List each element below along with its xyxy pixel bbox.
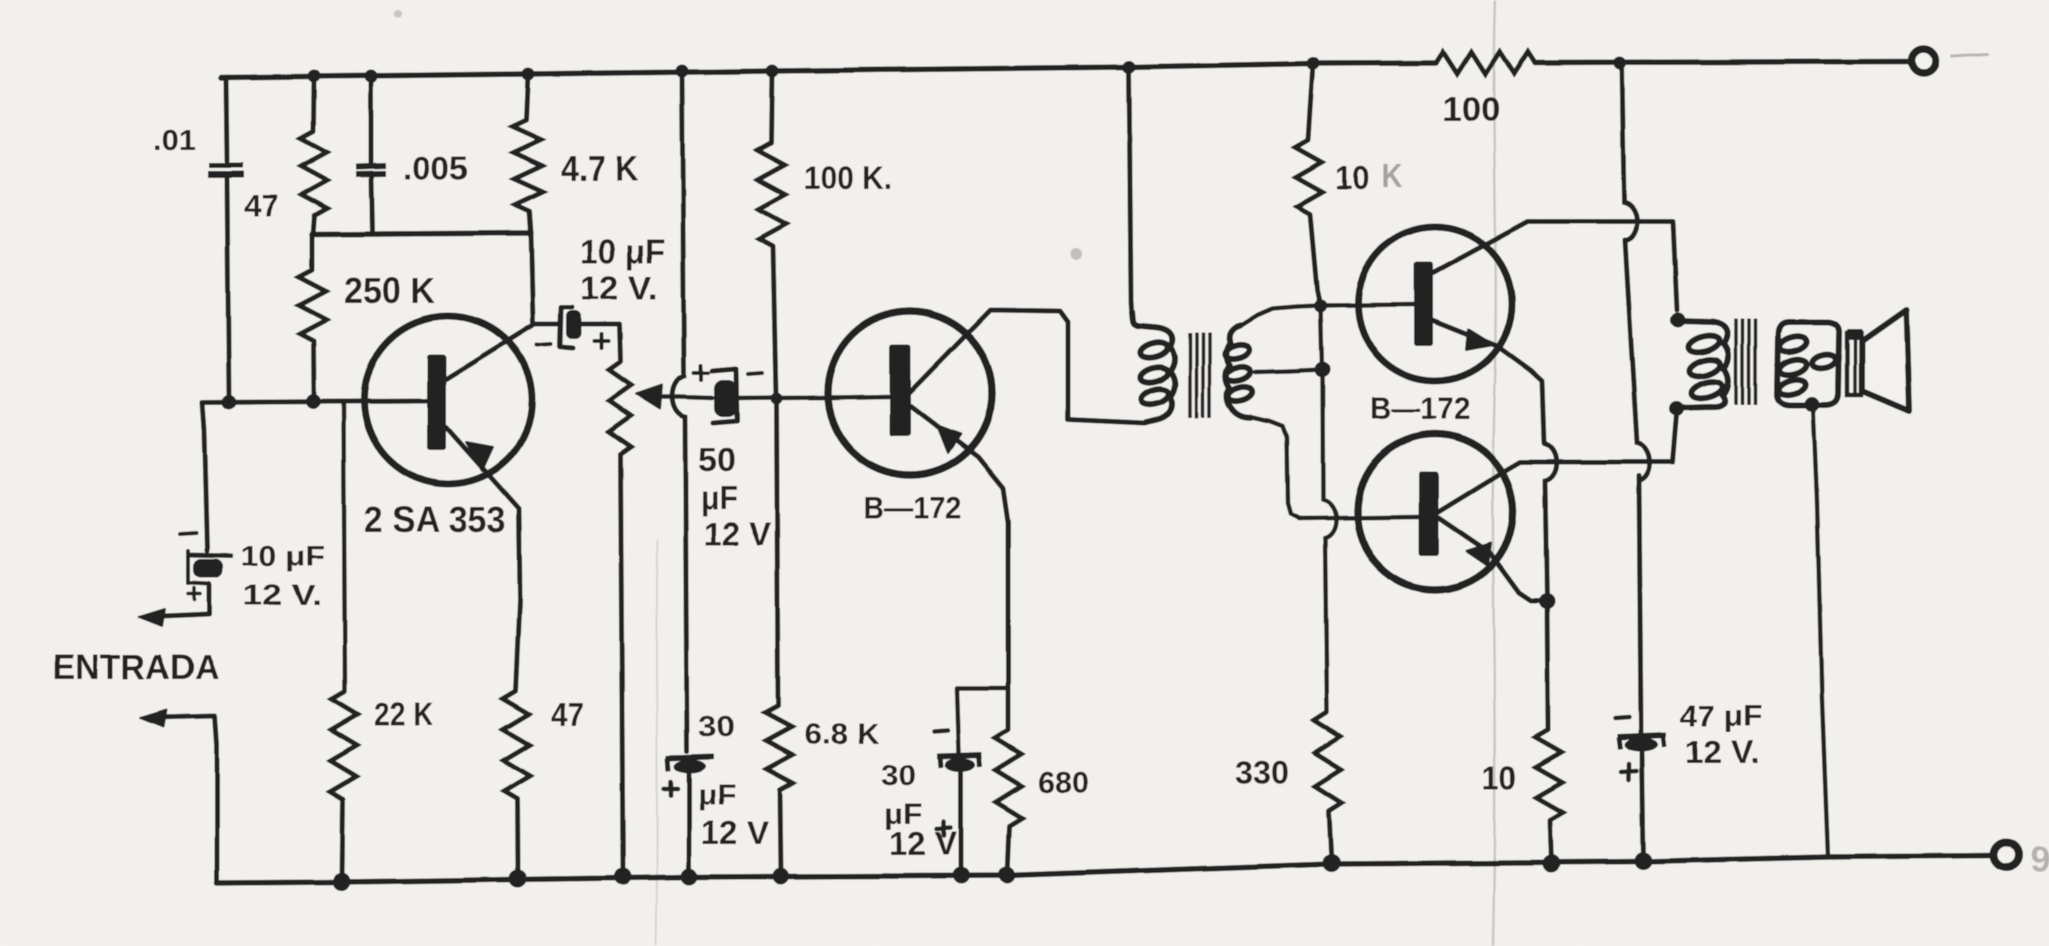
transistor Q2 bar — [890, 344, 911, 436]
node 680/rail — [998, 867, 1015, 884]
node T2 primary bottom — [1670, 402, 1685, 417]
transistor Q1 collector wire — [446, 325, 533, 379]
node bias junction — [771, 393, 783, 405]
resistor R 100 (series in rail) — [1436, 52, 1535, 74]
svg-text:30: 30 — [698, 711, 735, 743]
node 6.8K/rail — [773, 868, 790, 885]
transistor Q2 emitter wire — [911, 406, 1008, 730]
node base Q1 / .01 join — [222, 395, 237, 410]
wire mid tap to 330 (with hop) — [1323, 370, 1337, 713]
svg-text:μF: μF — [698, 780, 736, 812]
wire c30R to rail — [959, 771, 964, 876]
resistor R 10 — [1535, 730, 1563, 820]
node T2 secondary tap — [1805, 397, 1820, 412]
resistor R 22K — [330, 691, 358, 799]
node 330/rail — [1323, 854, 1341, 872]
label minus c10uF — [537, 344, 551, 345]
capacitor C 10uF coupling — [560, 307, 573, 348]
svg-text:K: K — [1381, 157, 1402, 194]
resistor R 250K — [299, 270, 327, 341]
paper crease — [1493, 0, 1496, 946]
terminal top right — [1912, 49, 1936, 73]
label plus c50uF — [694, 371, 708, 375]
svg-text:12 V.: 12 V. — [243, 580, 322, 612]
wire rail to C.005 — [369, 77, 374, 165]
svg-text:2 SA 353: 2 SA 353 — [364, 499, 506, 540]
wire rail to R10K — [1308, 64, 1313, 141]
wire T1 secondary bottom to Q4 base — [1252, 417, 1300, 519]
faint dash right of terminal — [1952, 54, 1988, 56]
svg-text:10: 10 — [1335, 159, 1369, 196]
svg-text:250 K: 250 K — [344, 270, 435, 311]
svg-text:6.8 K: 6.8 K — [804, 719, 879, 751]
wire 680 to rail — [1007, 826, 1009, 875]
node emitters join — [1539, 594, 1555, 610]
terminal bottom right — [1994, 843, 2019, 868]
node 47b/rail — [509, 870, 527, 888]
capacitor .01 — [209, 163, 243, 168]
label minus c47 — [1615, 717, 1629, 718]
node rail/100K — [766, 65, 779, 78]
svg-text:4.7 K: 4.7 K — [561, 148, 638, 189]
svg-text:330: 330 — [1235, 755, 1289, 791]
node rail/10K — [1307, 57, 1320, 70]
svg-text:B—172: B—172 — [863, 490, 961, 526]
wire collector node to cap — [533, 322, 560, 327]
wire cap to upper входной arrow — [152, 584, 209, 617]
transistor Q4 collector wire — [1438, 415, 1677, 512]
transistor Q3 circle — [1358, 227, 1512, 381]
wire input lower to ground rail — [153, 716, 217, 883]
svg-text:12 V.: 12 V. — [580, 269, 658, 306]
wire rail to R47 — [311, 76, 317, 131]
transistor Q1 bar — [427, 354, 446, 450]
wire 100K to base node — [773, 246, 776, 398]
node rail/filter column — [676, 65, 689, 78]
wire emitter to 30uF right — [957, 688, 1008, 753]
label plus input cap — [188, 592, 200, 596]
wire c30L to rail — [687, 773, 692, 877]
wire speaker return — [1813, 404, 1828, 857]
capacitor C 30uF (right) — [937, 755, 982, 757]
label plus c10uF — [594, 339, 608, 343]
node 22K/rail — [333, 873, 351, 891]
wire R47b to rail — [515, 799, 521, 879]
transformer T1 secondary winding — [1225, 325, 1252, 417]
transistor Q4 base wire — [1299, 517, 1419, 519]
transistor Q1 emitter wire — [446, 427, 520, 691]
paper crease 2 — [656, 540, 657, 946]
capacitor C 50uF — [712, 369, 737, 423]
wire R22K to rail — [342, 799, 343, 881]
transformer T1 core — [1188, 333, 1192, 418]
transistor Q1 circle — [364, 316, 532, 484]
transistor Q2 base wire — [834, 397, 890, 398]
wire cap to pot top — [581, 324, 620, 362]
wire B+ hop over Q3 collector line — [1622, 63, 1637, 241]
wire 330 to rail — [1329, 811, 1332, 863]
svg-text:12 V: 12 V — [889, 825, 957, 862]
svg-text:30: 30 — [881, 760, 916, 792]
wire rail to R4.7K — [526, 74, 528, 120]
wire Q3 emitter hop over collector line — [1543, 443, 1557, 601]
node c30R/rail — [953, 867, 970, 884]
transistor Q3 collector wire — [1433, 222, 1677, 311]
svg-text:10 μF: 10 μF — [241, 541, 325, 573]
svg-text:47 μF: 47 μF — [1680, 700, 1763, 733]
wire 50uF to bias node — [737, 395, 776, 400]
wire .01 to base node — [227, 178, 229, 402]
capacitor C .005 — [356, 166, 386, 167]
resistor R 100K — [758, 143, 787, 246]
transistor Q2 circle — [828, 311, 992, 475]
wire bottom ground rail — [217, 856, 1992, 884]
transistor Q3 emitter wire — [1432, 320, 1544, 443]
speaker cone — [1862, 310, 1909, 411]
wire B+ to 47uF — [1639, 476, 1641, 734]
node rail/T1 — [1123, 61, 1136, 74]
transistor Q4 bar — [1419, 471, 1439, 556]
label minus c50uF — [748, 373, 762, 374]
node rail/.005 — [365, 70, 378, 83]
wire filter column — [672, 71, 687, 751]
node T2 primary top — [1671, 313, 1686, 328]
transformer T2 core — [1734, 319, 1738, 405]
svg-text:50: 50 — [698, 441, 736, 478]
transistor Q4 emitter wire — [1439, 518, 1547, 601]
capacitor C input 10uF — [187, 555, 233, 556]
node base Q1 / 250K join — [306, 394, 321, 409]
svg-text:10: 10 — [1482, 759, 1516, 796]
svg-text:μF: μF — [701, 479, 738, 516]
svg-text:12 V: 12 V — [704, 516, 772, 552]
node c30L/rail — [681, 868, 698, 885]
transformer T2 secondary winding — [1777, 322, 1839, 405]
wire feedback bus — [312, 233, 531, 235]
transistor Q2 collector wire — [910, 310, 1145, 424]
svg-text:22 K: 22 K — [374, 696, 433, 733]
wire rail to terminal — [1535, 62, 1911, 63]
wire Q3 base — [1321, 305, 1415, 306]
label minus c30R — [934, 730, 948, 731]
resistor R 4.7K — [512, 120, 543, 211]
svg-text:47: 47 — [551, 696, 584, 733]
wire C.005 to bus — [372, 177, 373, 234]
svg-text:9 V: 9 V — [2030, 839, 2049, 880]
svg-text:12 V: 12 V — [701, 814, 769, 851]
wire R10 to rail — [1550, 820, 1552, 864]
transformer T2 primary winding — [1677, 321, 1729, 408]
transistor Q3 emitter arrow — [1466, 329, 1494, 350]
label minus input cap — [180, 533, 196, 534]
potentiometer wiper arrow — [636, 385, 662, 409]
resistor R 10K — [1295, 140, 1322, 214]
potentiometer track — [609, 362, 632, 455]
label plus c30R — [937, 828, 951, 829]
wire 250K to base node — [311, 341, 317, 401]
svg-text:.005: .005 — [403, 150, 468, 186]
transistor Q4 circle — [1357, 434, 1513, 590]
node pot/rail — [615, 868, 632, 885]
resistor R 6.8K — [765, 706, 793, 790]
svg-text:47: 47 — [244, 188, 278, 223]
label plus c47 — [1621, 771, 1637, 772]
capacitor C 30uF (left) — [666, 757, 714, 759]
node rail/47 — [308, 70, 321, 83]
transistor Q1 emitter arrow — [466, 442, 493, 471]
capacitor C 47uF — [1617, 735, 1666, 737]
resistor R 680 — [995, 730, 1022, 826]
wire T1 secondary mid tap — [1255, 370, 1322, 373]
wire bias node to 6.8K — [777, 399, 779, 707]
label plus c30L — [664, 787, 678, 792]
svg-text:B—172: B—172 — [1370, 390, 1470, 426]
node Q3 base junction — [1314, 300, 1327, 313]
node rail/B+ column — [1614, 57, 1627, 70]
svg-text:ENTRADA: ENTRADA — [53, 647, 219, 687]
wire Q1 base line — [202, 401, 428, 403]
wire base to R22K — [344, 403, 346, 691]
arrow input upper — [139, 609, 165, 626]
transformer T1 primary winding — [1132, 310, 1175, 423]
wire input coupling down — [202, 403, 207, 552]
transistor Q2 emitter arrow — [937, 425, 961, 453]
transistor Q4 emitter arrow — [1466, 543, 1491, 566]
transistor Q3 bar — [1414, 262, 1433, 346]
wire c47 to rail — [1642, 751, 1644, 861]
wire bias node to Q2 base — [777, 395, 835, 400]
node c47/rail — [1635, 852, 1653, 870]
wire 6.8K to rail — [780, 790, 781, 876]
resistor R 47 (emitter) — [503, 691, 530, 799]
wire R47 to bus — [313, 216, 315, 235]
resistor R 330 — [1314, 712, 1342, 811]
wire pot to rail — [621, 455, 624, 877]
wire T1 secondary top to Q3 base — [1242, 306, 1320, 326]
resistor R 47 (top) — [301, 131, 328, 216]
wire rail to 100K — [771, 71, 772, 143]
svg-text:12 V.: 12 V. — [1685, 734, 1760, 770]
speaker driver — [1847, 333, 1861, 395]
wire emitters to R10 — [1547, 602, 1548, 731]
wire rail to T1 primary top — [1129, 67, 1132, 318]
wire wiper to 50uF — [656, 397, 712, 398]
node R10/rail — [1543, 855, 1561, 873]
wire R10K to Q3 base — [1310, 214, 1320, 304]
wire base junction down to mid tap — [1321, 306, 1323, 370]
wire R4.7K to collector node — [530, 211, 534, 324]
svg-text:680: 680 — [1038, 765, 1089, 800]
svg-text:100 K.: 100 K. — [804, 160, 892, 196]
arrow input lower — [140, 710, 166, 727]
node mid tap junction — [1315, 362, 1331, 378]
wire top supply rail — [221, 63, 1436, 78]
svg-text:.01: .01 — [153, 124, 196, 157]
wire bus to 250K — [310, 235, 315, 271]
svg-text:100: 100 — [1442, 91, 1500, 129]
svg-text:10 μF: 10 μF — [580, 233, 665, 271]
wire left column from rail — [221, 78, 227, 162]
wire B+ hop over Q4 collector line — [1625, 240, 1650, 481]
node rail/4.7K — [522, 68, 535, 81]
